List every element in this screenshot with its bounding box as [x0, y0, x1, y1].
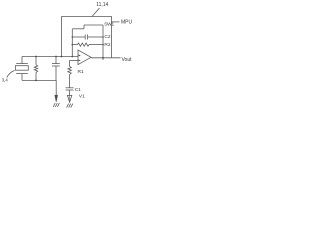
resistor (bias) branch [34, 57, 37, 81]
svg-text:MPU: MPU [121, 19, 133, 25]
svg-text:C1: C1 [75, 87, 81, 93]
capacitor C2 [72, 35, 103, 40]
junction dot rail/capacitor branch [55, 56, 57, 58]
svg-text:3,4: 3,4 [2, 77, 9, 82]
svg-text:11,14: 11,14 [96, 2, 108, 8]
svg-text:R1: R1 [78, 69, 84, 75]
resistor R1 [68, 60, 71, 87]
svg-text:Vout: Vout [122, 57, 133, 63]
switch SW1 [72, 25, 103, 29]
svg-text:R2: R2 [104, 42, 110, 48]
svg-text:SW1: SW1 [104, 22, 114, 28]
component V1 (triangle) [67, 95, 71, 102]
op-amp input mark (bottom) [79, 60, 81, 62]
op-amp input mark (top) [79, 55, 81, 57]
wire MPU stub [112, 21, 120, 23]
crystal X1 [15, 57, 28, 81]
wire op-amp output Vout line [91, 57, 121, 59]
wire bottom rail to ground [55, 80, 57, 95]
ground (right) [67, 104, 73, 108]
junction dot bottom rail/resistor [35, 80, 37, 82]
svg-text:C2: C2 [104, 34, 110, 40]
junction dots on rails [72, 36, 74, 38]
op-amp U1 [78, 50, 91, 65]
ground (left) [53, 95, 59, 107]
capacitor C1 [66, 88, 74, 96]
feedback network left rail [71, 29, 73, 57]
svg-text:V1: V1 [79, 93, 85, 99]
junction dot rail/left-drop [61, 56, 63, 58]
wire non-inverting input [70, 59, 78, 61]
label pins 3,4 leader line [7, 70, 15, 77]
node A main rail (amp inverting input line) [22, 56, 78, 58]
junction dot output/feedback right rail [102, 57, 104, 59]
junction dot rail/resistor branch [35, 56, 37, 58]
label pins 11,14 leader line [92, 8, 100, 17]
capacitor (load) branch [52, 57, 60, 81]
junction dot rail/feedback rail [71, 56, 73, 58]
wire top feedback loop [62, 17, 112, 58]
resistor R2 [72, 43, 103, 46]
feedback network right rail [102, 25, 104, 60]
wire bottom rail [22, 79, 56, 81]
